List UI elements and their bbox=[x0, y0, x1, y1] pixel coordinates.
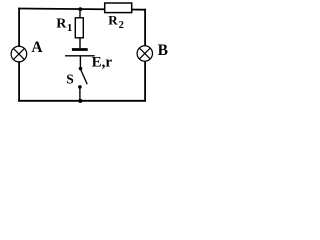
wire right bbox=[144, 9, 146, 102]
svg-text:B: B bbox=[158, 42, 168, 59]
wire switch to bottom bbox=[79, 87, 81, 101]
node bottom junction bbox=[78, 99, 82, 103]
node top junction bbox=[78, 7, 82, 11]
wire top bbox=[18, 9, 146, 10]
wire R1 to battery bbox=[79, 38, 81, 49]
lamp A bbox=[11, 46, 27, 62]
resistor R1 bbox=[75, 18, 83, 38]
label R1 bbox=[56, 17, 72, 34]
battery E,r plate positive (long thin) bbox=[65, 55, 95, 57]
wire battery to switch bbox=[79, 56, 81, 69]
svg-text:S: S bbox=[66, 72, 74, 87]
svg-text:A: A bbox=[31, 39, 43, 56]
label R2 bbox=[108, 13, 124, 31]
resistor R2 bbox=[105, 3, 132, 13]
wire bottom bbox=[18, 100, 146, 102]
battery E,r plate negative (short thick) bbox=[72, 48, 88, 51]
switch S lower contact node bbox=[78, 85, 82, 89]
wire left bbox=[18, 8, 20, 102]
lamp B bbox=[137, 46, 152, 61]
wire R1 top lead bbox=[79, 9, 81, 18]
switch S pivot node bbox=[79, 67, 83, 71]
switch S blade (open) bbox=[81, 70, 87, 84]
svg-text:R: R bbox=[108, 13, 118, 28]
svg-text:R: R bbox=[56, 17, 67, 32]
svg-text:2: 2 bbox=[119, 20, 124, 31]
svg-text:E,r: E,r bbox=[92, 54, 113, 70]
svg-text:1: 1 bbox=[67, 22, 73, 34]
